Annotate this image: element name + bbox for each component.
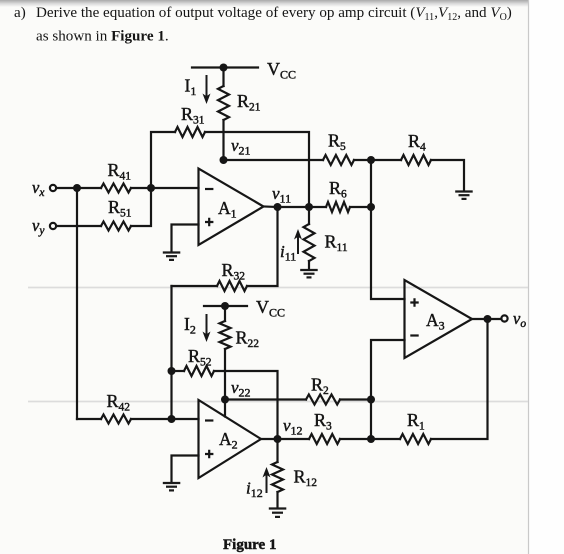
ground (R12) bbox=[269, 509, 287, 517]
wire v11 row bbox=[278, 206, 327, 208]
wire vx to junction bbox=[56, 187, 77, 189]
scan artifact line 1 bbox=[28, 287, 528, 289]
output terminal vo bbox=[501, 315, 507, 321]
input terminal vx bbox=[50, 185, 56, 191]
node R3/R1 junction bbox=[367, 435, 375, 443]
wire A1 plus input to ground bbox=[172, 225, 199, 253]
A3 plus sign bbox=[410, 298, 418, 306]
node v22 bbox=[221, 396, 229, 404]
resistor R31 feedback loop wire bbox=[151, 127, 309, 207]
current arrow I1 bbox=[206, 75, 208, 97]
A1 minus sign bbox=[205, 188, 213, 190]
resistor R21 bbox=[218, 68, 229, 161]
ground (R11) bbox=[300, 270, 318, 277]
wire A2 plus input to ground bbox=[172, 456, 199, 483]
resistor R22 bbox=[220, 306, 231, 400]
op-amp A3 bbox=[405, 280, 473, 358]
wire A1 output to v11 bbox=[264, 205, 278, 208]
Vcc rail 1 (wire) bbox=[192, 66, 258, 68]
resistor R32 bbox=[172, 207, 278, 291]
node R6 right junction bbox=[367, 203, 375, 211]
resistor R4 bbox=[371, 155, 464, 191]
resistor R3 bbox=[278, 434, 372, 444]
A2 plus sign bbox=[205, 450, 213, 458]
svg-text:Derive the equation of output: Derive the equation of output voltage of… bbox=[36, 5, 512, 23]
node v21 bbox=[220, 156, 228, 164]
node Vcc rail 2 junction bbox=[221, 302, 229, 310]
input terminal vy bbox=[50, 223, 56, 229]
ground (R4) bbox=[455, 192, 473, 199]
op-amp A2 bbox=[199, 400, 262, 478]
svg-text:a): a) bbox=[14, 5, 26, 21]
resistor R42 bbox=[77, 415, 172, 424]
current arrow I2 bbox=[206, 314, 208, 335]
resistor R6 bbox=[326, 202, 371, 212]
wire v22 row to R2 bbox=[225, 398, 306, 400]
node v11 bbox=[274, 203, 282, 211]
scan edge shading top bbox=[0, 0, 564, 7]
resistor R52 bbox=[172, 366, 278, 439]
node A3 output junction bbox=[484, 315, 492, 323]
wire v22 stub into A2 bbox=[224, 400, 226, 417]
wire A2 output to v12 bbox=[261, 438, 278, 440]
wire to A1 minus input bbox=[151, 187, 199, 189]
node R11/R6 junction bbox=[305, 203, 313, 211]
resistor R51 bbox=[56, 188, 151, 231]
page margin strip right bbox=[529, 0, 564, 554]
resistor R11 bbox=[304, 207, 315, 270]
op-amp A1 bbox=[199, 169, 264, 246]
wire A3 minus input column bbox=[371, 340, 405, 439]
wire A3 output bbox=[472, 318, 501, 320]
ground (A2 +) bbox=[163, 483, 181, 490]
resistor R2 bbox=[306, 395, 371, 405]
A3 minus sign bbox=[410, 334, 418, 336]
A1 plus sign bbox=[205, 218, 213, 226]
Vcc rail 2 (wire) bbox=[204, 305, 247, 307]
resistor R1 bbox=[371, 319, 488, 444]
svg-text:as shown in Figure 1.: as shown in Figure 1. bbox=[36, 29, 169, 45]
ground (A1 +) bbox=[163, 253, 181, 260]
node vx junction bbox=[73, 184, 81, 192]
resistor R41 bbox=[77, 184, 151, 193]
resistor R5 bbox=[323, 155, 371, 165]
node R5/R4 junction bbox=[367, 156, 375, 164]
svg-text:Figure 1: Figure 1 bbox=[223, 537, 276, 553]
node: Vcc rail 1 junction bbox=[220, 64, 228, 72]
node A2 inverting node bbox=[168, 415, 176, 423]
wire vx column down to R42 row bbox=[76, 188, 78, 419]
scan artifact vertical line bbox=[528, 0, 530, 554]
current arrow i11 bbox=[297, 236, 299, 254]
wire A2 minus node column bbox=[170, 286, 172, 419]
node A1 inverting input bbox=[147, 184, 155, 192]
current arrow i12 bbox=[266, 474, 268, 493]
A2 minus sign bbox=[205, 419, 213, 421]
node R52 left junction bbox=[168, 367, 176, 375]
node v12 bbox=[274, 435, 282, 443]
resistor R12 bbox=[272, 439, 283, 508]
scan artifact line 2 bbox=[28, 401, 528, 403]
node R2 right junction bbox=[367, 396, 375, 404]
wire to A2 minus input bbox=[172, 418, 199, 420]
wire right column to A3 plus input bbox=[371, 160, 405, 299]
wire v21 row to R5 bbox=[224, 159, 324, 161]
